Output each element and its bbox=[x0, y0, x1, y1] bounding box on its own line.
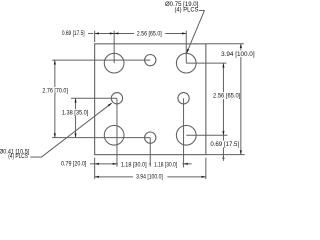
svg-text:2.56 [65.0]: 2.56 [65.0] bbox=[213, 94, 241, 100]
svg-text:0.79 [20.0]: 0.79 [20.0] bbox=[61, 162, 87, 168]
svg-text:(4) PLCS: (4) PLCS bbox=[175, 7, 199, 13]
svg-text:3.94 [100.0]: 3.94 [100.0] bbox=[136, 174, 163, 180]
svg-text:0.69 [17.5]: 0.69 [17.5] bbox=[210, 142, 239, 148]
svg-text:1.38 [35.0]: 1.38 [35.0] bbox=[62, 111, 89, 117]
svg-text:2.76 [70.0]: 2.76 [70.0] bbox=[42, 89, 68, 95]
svg-text:3.94 [100.0]: 3.94 [100.0] bbox=[221, 52, 255, 58]
svg-text:1.18 [30.0]: 1.18 [30.0] bbox=[154, 163, 177, 169]
svg-text:0.69 [17.5]: 0.69 [17.5] bbox=[62, 31, 85, 37]
svg-text:(4) PLCS: (4) PLCS bbox=[8, 154, 28, 160]
svg-text:1.18 [30.0]: 1.18 [30.0] bbox=[121, 163, 147, 169]
svg-text:2.56 [65.0]: 2.56 [65.0] bbox=[137, 32, 162, 38]
